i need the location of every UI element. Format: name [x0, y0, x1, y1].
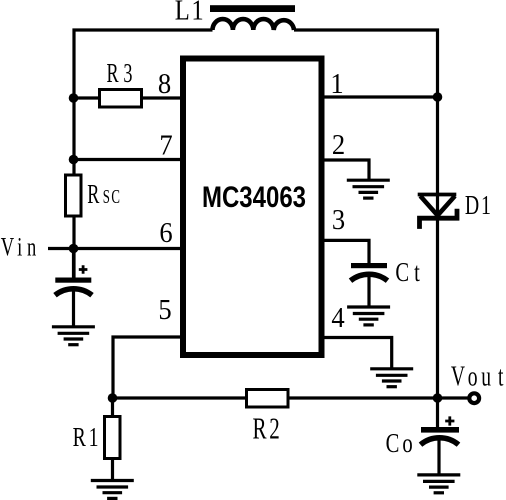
ground R1 — [91, 481, 134, 499]
wire pin2 to ground — [325, 160, 370, 180]
svg-text:R1: R1 — [73, 423, 99, 453]
svg-text:Ct: Ct — [395, 257, 420, 288]
junction pin8/R3 — [69, 93, 79, 103]
ground pin4 — [370, 369, 413, 387]
diode D1 — [418, 195, 457, 229]
resistor R1 — [105, 417, 121, 459]
svg-text:Vin: Vin — [1, 232, 37, 261]
wire pin8 — [74, 96, 180, 99]
wire top rail left + left rail upper — [74, 30, 213, 175]
wire left rail lower — [72, 216, 75, 279]
junction pin1 — [433, 92, 443, 102]
capacitor Cin — [55, 265, 92, 295]
ground pin2 — [347, 180, 390, 198]
wire Ct to ground — [367, 276, 370, 307]
junction Vout — [433, 393, 443, 403]
svg-text:2: 2 — [332, 129, 345, 160]
wire pin6 Vin lead — [48, 247, 180, 250]
inductor L1 — [210, 5, 295, 30]
wire pin1 — [325, 95, 438, 98]
wire right rail — [436, 95, 439, 398]
svg-text:7: 7 — [159, 130, 172, 161]
svg-text:8: 8 — [158, 68, 171, 99]
ground Ct — [347, 307, 390, 325]
svg-text:R2: R2 — [252, 410, 279, 445]
svg-text:L1: L1 — [175, 0, 204, 26]
capacitor Ct — [351, 263, 388, 281]
wire pin3 to Ct — [325, 240, 370, 263]
junction R1 R2 — [108, 393, 118, 403]
svg-text:D1: D1 — [465, 191, 491, 221]
wire Co top — [436, 398, 439, 428]
wire input cap to ground — [72, 290, 75, 327]
resistor Rsc — [66, 175, 82, 216]
wire bottom rail — [113, 396, 468, 399]
svg-text:3: 3 — [332, 204, 345, 235]
resistor R3 — [100, 90, 142, 108]
wire input cap top — [72, 249, 75, 279]
IC U1 MC34063 — [183, 59, 322, 356]
wire top rail right — [294, 30, 438, 97]
capacitor Co — [421, 416, 460, 444]
wire pin5 — [113, 337, 180, 398]
svg-text:4: 4 — [331, 302, 345, 333]
wire Co to ground — [437, 439, 440, 475]
svg-text:1: 1 — [330, 68, 343, 99]
svg-text:6: 6 — [159, 217, 172, 248]
wire R1 leg — [111, 398, 114, 481]
wire pin7 — [74, 158, 180, 161]
wire pin4 to ground — [325, 338, 392, 369]
ground Co — [417, 475, 460, 493]
resistor R2 — [247, 390, 289, 408]
svg-text:Co: Co — [386, 428, 413, 459]
junction pin7 — [69, 155, 79, 165]
ground input cap — [52, 327, 95, 345]
svg-text:MC34063: MC34063 — [202, 179, 306, 213]
junction Vin pin6 — [69, 244, 79, 254]
terminal Vout — [469, 393, 479, 403]
svg-text:5: 5 — [158, 294, 171, 325]
